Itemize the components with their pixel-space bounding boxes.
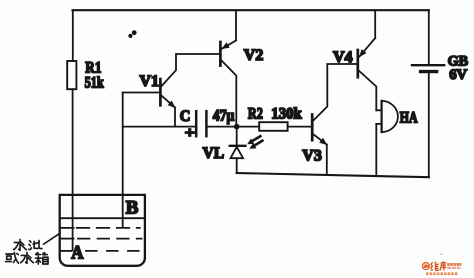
label 水池或水箱 (hand-drawn CJK strokes): [6, 239, 48, 264]
tank water dashes row 3: [86, 250, 140, 252]
svg-text:V2: V2: [244, 47, 263, 64]
battery GB minus plate: [421, 70, 437, 73]
wire V3 emitter with arrow to bottom rail: [313, 134, 327, 144]
tank left rung 1: [61, 227, 74, 229]
svg-text:V1: V1: [140, 73, 160, 90]
transistor V4 base bar: [356, 50, 359, 77]
svg-text:V4: V4: [333, 49, 353, 66]
char 或 (row2): [6, 252, 19, 263]
transistor V3 base bar: [311, 115, 314, 141]
speaker HA top stub: [376, 109, 381, 111]
node A junction dot: [234, 124, 240, 130]
tank left rung 2: [61, 238, 74, 240]
svg-text:C: C: [180, 108, 191, 125]
wire node to R2: [237, 126, 259, 128]
wire V1 base: [123, 92, 160, 94]
wire V2 emitter to top rail with arrow into bar: [235, 10, 237, 40]
wire capacitor to node A: [208, 126, 237, 128]
svg-text:VL: VL: [203, 145, 225, 162]
char 水 (row1): [14, 239, 27, 250]
watermark bottom char row: [426, 272, 457, 275]
svg-text:+: +: [185, 125, 195, 141]
wire node B to capacitor: [123, 126, 196, 128]
capacitor C plates: [195, 111, 198, 136]
svg-text:HA: HA: [400, 109, 418, 126]
wire left rail from top rail to R1: [72, 10, 74, 61]
tank water dashes row 2: [78, 238, 142, 240]
char 池 (row1): [29, 241, 42, 250]
ink speck artifact top: [128, 30, 136, 38]
LED light arrow 2: [254, 141, 262, 146]
svg-text:V3: V3: [302, 147, 322, 164]
wire R1 to electrode A (into tank): [72, 89, 74, 250]
LED VL triangle: [231, 147, 244, 158]
char 箱 (row2): [36, 253, 49, 264]
wire electrode B vertical: [122, 93, 124, 228]
wire speaker to bottom rail: [375, 124, 377, 176]
tank water dashes row 1: [77, 227, 140, 229]
watermark small text 电子市场网: [447, 263, 461, 266]
leader line from tank label: [44, 233, 60, 244]
wire battery to bottom rail: [428, 73, 430, 177]
watermark 维库电子市场网 logo: [422, 254, 462, 276]
LED light arrow 1: [252, 136, 260, 141]
watermark url line: [447, 267, 460, 269]
battery GB plus plate: [412, 64, 444, 66]
transistor V1 base bar: [159, 79, 162, 105]
tank left rung 3: [61, 250, 72, 252]
wire node to LED VL: [236, 129, 238, 145]
watermark char 维: [431, 262, 439, 271]
wire V4 emitter to top rail with arrow into bar: [374, 10, 376, 38]
tank inner level line: [61, 217, 144, 219]
svg-text:B: B: [126, 198, 139, 219]
water tank outline: [60, 195, 145, 266]
svg-text:6V: 6V: [449, 67, 467, 83]
wire bottom rail: [237, 173, 429, 177]
wire V2 collector down to node: [222, 61, 237, 125]
char 水 (row2): [21, 252, 34, 263]
watermark badge circle: [422, 262, 430, 270]
wire V1 collector up to V2 base: [161, 54, 219, 86]
speaker HA bottom stub: [376, 123, 381, 125]
wire top supply rail: [73, 9, 429, 11]
speaker HA dome: [382, 101, 398, 132]
resistor R1: [67, 61, 76, 89]
wire right rail from top rail to battery: [428, 10, 430, 64]
watermark char 库: [440, 261, 446, 270]
speaker HA flat bar: [381, 101, 383, 132]
wire V1 emitter with arrow: [161, 96, 175, 108]
transistor V2 base bar: [219, 42, 222, 66]
wire V4 collector down to speaker: [359, 71, 376, 110]
svg-text:130k: 130k: [271, 106, 302, 123]
wire V3 collector up to V4 base: [313, 64, 357, 121]
svg-text:47μ: 47μ: [213, 108, 235, 125]
svg-text:R2: R2: [248, 106, 263, 123]
resistor R2: [259, 122, 287, 131]
LED VL cathode bar: [230, 145, 246, 147]
svg-text:A: A: [71, 242, 83, 263]
wire R2 to V3 base: [288, 126, 312, 128]
svg-text:51k: 51k: [85, 75, 104, 92]
wire LED to bottom rail: [236, 158, 238, 173]
watermark pink speck: [440, 254, 442, 255]
